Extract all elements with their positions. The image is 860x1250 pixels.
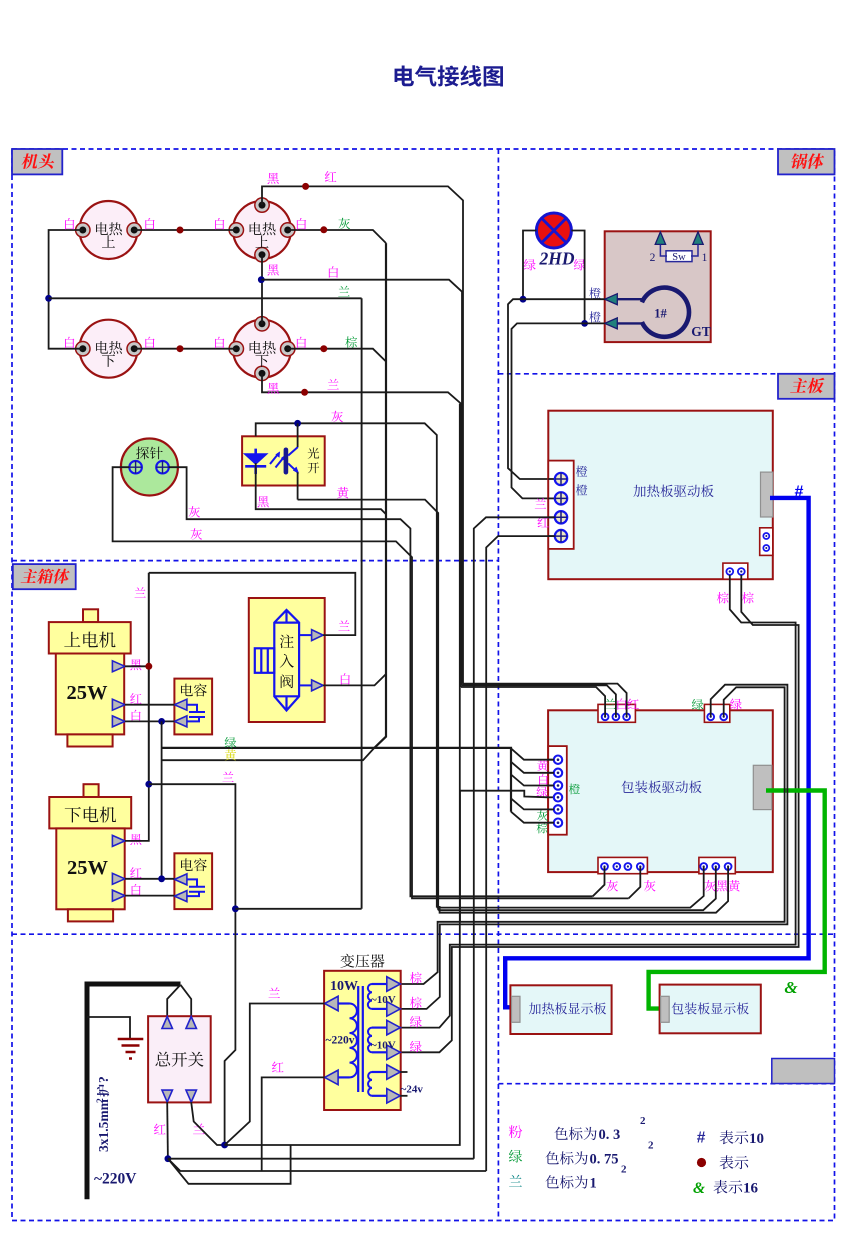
- wire probe right hui: [169, 467, 593, 896]
- packing left terminal pin 5: [548, 808, 558, 810]
- valve solenoid symbol: [255, 648, 274, 673]
- label lv bundle: [225, 737, 237, 748]
- label hei bottom: [716, 880, 727, 891]
- wire lan-1 vertical: [361, 298, 363, 909]
- transformer primary coil: [350, 1004, 357, 1078]
- packing driver board U-pack: [548, 710, 773, 872]
- node junction lan-908: [232, 905, 239, 912]
- label cable spec 3x1.5mm2-hu: [96, 1076, 111, 1152]
- label lan top: [604, 698, 615, 708]
- label bai heater3 left: [65, 337, 74, 348]
- node junction lamp left: [520, 296, 527, 303]
- probe tan-zhen body: [121, 439, 178, 496]
- wire heater left bus: [49, 230, 83, 349]
- heating driver terminal pin 2: [548, 497, 561, 499]
- valve capsule symbol: [274, 610, 299, 711]
- label hui probe left wire: [191, 528, 203, 539]
- wire hong into packing top: [461, 687, 605, 717]
- label zong sec1: [410, 972, 422, 984]
- svg-text:&: &: [693, 1180, 705, 1197]
- wire hui-b2 to probe bus: [629, 867, 641, 899]
- switch terminal bottom-right: [186, 1090, 197, 1102]
- valve label zhu-ru-fa: [280, 634, 294, 648]
- capacitor upper dian-rong: [174, 679, 212, 735]
- wire cheng-B GT to driver t2: [512, 323, 605, 498]
- label bai heater2 left: [215, 218, 224, 229]
- wire dot1 to right riser: [168, 1158, 474, 1160]
- svg-text:2: 2: [640, 1115, 646, 1127]
- wire huang cap branch: [162, 748, 375, 760]
- label huang left: [537, 760, 548, 771]
- legend lan color-code: [509, 1175, 522, 1187]
- node junction dot1: [165, 1155, 172, 1162]
- svg-text:0. 3: 0. 3: [599, 1127, 621, 1143]
- label hong heater2 top: [325, 171, 337, 182]
- motor lower xia-dian-ji 25W: [84, 784, 99, 797]
- svg-text:~24v: ~24v: [401, 1084, 424, 1096]
- label lan driver t3: [535, 498, 546, 508]
- connector Sw pin2 triangle: [655, 232, 665, 245]
- wire motor-upper bai to cap: [125, 720, 174, 722]
- title dian-qi-jie-xian-tu (electrical wiring diagram): [395, 65, 503, 86]
- wire probe left hui: [113, 467, 629, 898]
- wire lv-2 transformer to packing top: [401, 687, 785, 984]
- wire mains to switch L: [167, 985, 180, 1016]
- svg-text:#: #: [795, 484, 804, 501]
- node junction bai-cap upper: [158, 718, 165, 725]
- mains cable thick: [87, 984, 181, 1199]
- node junction lan-2 wire: [301, 389, 308, 396]
- wire heater row2 link: [134, 348, 237, 350]
- GT coil box: [605, 231, 711, 342]
- packing left terminal pin 1: [548, 759, 558, 761]
- packing top terminal block lv-lv: [704, 704, 729, 722]
- svg-text:0. 75: 0. 75: [590, 1152, 619, 1168]
- wire vertical bus x386 hui/zong: [374, 243, 386, 748]
- label hui probe right wire: [189, 506, 201, 517]
- motor upper terminal bai: [112, 716, 125, 727]
- wire hei from opto LED: [256, 463, 386, 514]
- label bai left: [539, 774, 548, 785]
- wire fan to pin hui: [511, 798, 554, 809]
- svg-text:?: ?: [96, 1076, 111, 1083]
- label bai valve: [341, 673, 350, 684]
- label cheng driver t1: [576, 466, 587, 477]
- label lv sec4: [410, 1041, 422, 1052]
- svg-text:~10V: ~10V: [371, 1040, 396, 1052]
- wire cheng 24v riser: [459, 791, 461, 922]
- heating driver terminal pin 3: [548, 516, 561, 518]
- label bai motor upper: [132, 710, 141, 721]
- wire huang-b run: [440, 867, 728, 913]
- svg-text:10W: 10W: [330, 979, 358, 994]
- wire bai-cap riser down: [161, 721, 163, 878]
- legend fen color-code: [509, 1125, 522, 1138]
- transformer secondary terminal t1: [387, 977, 401, 992]
- label bai heater2 right: [297, 218, 306, 229]
- wire dot1 diag2 low run: [168, 1145, 291, 1184]
- wire cheng-A GT to driver t1: [508, 299, 605, 479]
- switch terminal bottom-left: [162, 1090, 173, 1102]
- node junction hui wire: [320, 226, 327, 233]
- wire switch hong down: [166, 1102, 169, 1159]
- label hui bottom-1: [607, 880, 619, 891]
- label cheng left: [569, 784, 580, 795]
- label hei opto wire: [257, 496, 268, 507]
- packing left terminal pin 3: [548, 785, 558, 787]
- wire lan-1 bottom link: [235, 908, 361, 910]
- section label ji-tou (machine head): [12, 149, 62, 174]
- svg-text:25W: 25W: [67, 857, 109, 879]
- label bai mid wire: [329, 266, 338, 277]
- label bai top: [617, 698, 626, 709]
- transformer title bian-ya-qi: [340, 954, 384, 968]
- label bai heater1 left: [65, 218, 74, 229]
- GT heating coil 1#: [642, 288, 689, 337]
- section label zhu-xiang-ti (main box): [13, 564, 76, 589]
- heater element upper-2 dian-re-shang: [233, 201, 291, 259]
- svg-text:&: &: [784, 978, 798, 997]
- wire valve-lan riser: [148, 573, 150, 784]
- wire bundle main run: [162, 748, 511, 812]
- divider horizontal between pot-body and mainboard: [498, 373, 834, 375]
- motor upper shang-dian-ji 25W: [83, 609, 98, 622]
- wire fan to pin lv: [511, 775, 554, 786]
- node junction motor-upper hei: [145, 663, 152, 670]
- svg-text:2: 2: [650, 252, 656, 264]
- label lan bundle: [222, 771, 233, 781]
- label lan-1 wire: [338, 286, 349, 297]
- svg-text:GT: GT: [691, 324, 711, 339]
- wire opto transistor through: [297, 423, 299, 447]
- svg-text:1#: 1#: [654, 307, 667, 321]
- node junction lamp right: [581, 320, 588, 327]
- wire zong-2 run: [401, 575, 799, 1052]
- main switch zong-kai-guan box: [148, 1016, 211, 1102]
- label hui opto wire: [331, 411, 343, 422]
- motor lower terminal hei: [112, 835, 125, 846]
- svg-text:3x1.5mm: 3x1.5mm: [96, 1098, 111, 1152]
- label zong heater4 row: [345, 336, 357, 348]
- opto-switch guang-kai box: [242, 436, 325, 485]
- wire ground branch: [87, 1017, 130, 1039]
- probe terminal left pin: [129, 461, 142, 474]
- heating driver aux box: [760, 528, 773, 556]
- wire hui-b1 to probe bus: [593, 867, 605, 897]
- label cheng GT lower: [589, 311, 600, 322]
- label hong motor upper: [130, 693, 141, 704]
- wire lan branch right: [149, 784, 236, 1145]
- label hei heater2 bottom: [267, 264, 278, 275]
- opto light arrows: [270, 454, 284, 468]
- packing left terminal pin 6: [548, 822, 558, 824]
- connector Sw pin1 triangle: [693, 232, 703, 245]
- wire zong from heater4 right: [287, 349, 386, 362]
- svg-text:#: #: [697, 1130, 706, 1147]
- node junction motor-lower hei: [145, 781, 152, 788]
- label zong left: [537, 822, 548, 833]
- svg-text:16: 16: [743, 1181, 759, 1197]
- node junction on hong wire: [302, 183, 309, 190]
- svg-text:1: 1: [702, 252, 708, 264]
- packing display board bao-zhuang-ban-xian-shi-ban: [660, 985, 761, 1034]
- divider vertical between head/main-box and pot/mainboard sections: [497, 149, 499, 1221]
- divider horizontal between ji-tou and main-box: [12, 560, 498, 562]
- wire dot1 diag to hong-primary run: [168, 1159, 486, 1171]
- wire fan to pin zong: [511, 812, 554, 823]
- wire fan to pin bai: [511, 762, 554, 773]
- node junction bai tap: [258, 276, 265, 283]
- wire motor-upper hei to valve net: [125, 665, 149, 667]
- wire lan-2 from heater4 bottom: [262, 374, 461, 688]
- wire bai into packing top: [462, 685, 616, 717]
- wire motor-lower bai to cap: [125, 895, 174, 897]
- label hong driver t4: [538, 517, 549, 528]
- heating driver left terminal block: [548, 461, 573, 549]
- packing left terminal block: [548, 746, 567, 835]
- packing bottom terminal block hui-hui: [598, 857, 647, 873]
- wire heater2 bottom to heater4 top: [261, 255, 263, 324]
- transformer box: [324, 971, 401, 1110]
- wire lan driver t3 to bottom: [474, 517, 555, 1158]
- node junction row2: [177, 345, 184, 352]
- heating display board jia-re-ban-xian-shi-ban: [510, 985, 611, 1034]
- capacitor lower dian-rong: [174, 853, 212, 909]
- wire lan primary feed: [225, 1004, 325, 1146]
- motor upper terminal hong: [112, 699, 125, 710]
- label hei motor lower: [130, 834, 141, 845]
- label zong sec2: [410, 997, 422, 1009]
- wire dot2 to right riser: [225, 404, 460, 1145]
- wire lamp right lead: [571, 231, 584, 324]
- wire hui from heater2 right: [287, 230, 386, 243]
- transformer primary terminal top: [325, 996, 339, 1011]
- wire hui-b3 run: [437, 867, 704, 908]
- label bai heater4 right: [297, 337, 306, 348]
- label lv lamp right: [574, 259, 586, 270]
- label hui left: [537, 810, 548, 821]
- label zong driver bottom right: [742, 592, 754, 604]
- transformer secondary coil 2: [368, 1028, 372, 1053]
- label bai heater4 left: [215, 337, 224, 348]
- label huang bundle: [225, 749, 236, 760]
- wire huang from opto: [298, 500, 439, 911]
- packing left terminal pin 2: [548, 772, 558, 774]
- wire zong-1 run: [401, 575, 796, 1028]
- svg-text:~220v: ~220v: [326, 1035, 355, 1047]
- valve terminal lan: [299, 634, 312, 636]
- svg-text:2: 2: [96, 1098, 106, 1103]
- wire motor-lower hong to cap: [125, 878, 174, 880]
- svg-text:10: 10: [749, 1131, 764, 1147]
- label hei heater4 bottom: [267, 383, 278, 394]
- label bai motor lower: [132, 884, 141, 895]
- label hei motor upper: [130, 659, 141, 670]
- svg-text:Sw: Sw: [672, 252, 686, 263]
- svg-text:2: 2: [648, 1140, 654, 1152]
- svg-text:~220V: ~220V: [94, 1171, 137, 1188]
- label lv left: [537, 787, 548, 798]
- section label guo-ti (pot body): [778, 149, 835, 174]
- label hong top: [628, 699, 639, 710]
- wire lv-1 transformer to packing top: [401, 685, 788, 1009]
- wire hui from opto top to bus: [256, 423, 437, 907]
- divider horizontal above legend: [498, 1083, 834, 1085]
- motor lower terminal hong: [112, 873, 125, 884]
- valve terminal bai: [299, 684, 312, 686]
- wire hei/hong from heater2 top: [262, 186, 463, 683]
- label lv sec3: [410, 1016, 422, 1027]
- heater element upper-1 dian-re-shang: [80, 201, 138, 259]
- label hong transformer primary: [272, 1062, 284, 1073]
- label lan transformer primary: [269, 987, 280, 998]
- heating driver board U-heat: [548, 411, 773, 580]
- svg-text:2HD: 2HD: [539, 249, 575, 269]
- label hong switch: [154, 1124, 166, 1135]
- label huang bottom: [728, 880, 740, 891]
- divider horizontal above power section: [12, 933, 835, 935]
- heating driver terminal pin 4: [548, 535, 561, 537]
- wire lamp left lead: [523, 231, 536, 300]
- motor upper terminal hei: [112, 661, 125, 672]
- wire heater row1 link: [134, 229, 237, 231]
- transformer secondary coil 1: [368, 984, 372, 1009]
- transformer secondary coil 3: [368, 1072, 372, 1096]
- heater element lower-2 dian-re-xia: [233, 320, 291, 378]
- label hui bottom-3: [704, 880, 716, 891]
- node junction hong-cap lower: [158, 875, 165, 882]
- label lv top-right: [730, 699, 742, 710]
- grey spare box bottom-right: [772, 1059, 835, 1084]
- label zong driver bottom left: [717, 592, 729, 604]
- svg-text:2: 2: [621, 1164, 627, 1176]
- heating driver terminal pin 1: [548, 478, 561, 480]
- label cheng GT upper: [589, 288, 600, 299]
- switch terminal top-left: [162, 1017, 173, 1029]
- label lv lamp left: [524, 259, 536, 270]
- label hong motor lower: [130, 867, 141, 878]
- wire lan-1 from left bus to vertical bus: [49, 297, 362, 299]
- connector GT upper triangle: [605, 294, 618, 305]
- label lan near riser: [135, 587, 146, 597]
- node junction row1: [177, 227, 184, 234]
- label lan valve: [338, 620, 349, 630]
- heating driver bottom terminal block: [723, 563, 748, 579]
- heater element lower-1 dian-re-xia: [80, 320, 138, 378]
- motor lower terminal bai: [112, 890, 125, 901]
- opto LED symbol: [245, 449, 266, 474]
- transformer secondary terminal t5: [387, 1065, 401, 1080]
- label hui heater2 row: [339, 218, 351, 229]
- legend dot means join: [697, 1158, 706, 1167]
- injection valve box: [249, 598, 325, 722]
- wire # blue from heating driver: [505, 498, 808, 1007]
- heating display connector: [512, 996, 521, 1022]
- label lan switch: [193, 1124, 204, 1135]
- svg-text:25W: 25W: [67, 682, 109, 704]
- heating driver right connector: [761, 472, 773, 517]
- node junction dot2: [221, 1142, 228, 1149]
- label cheng driver t2: [576, 484, 587, 495]
- connector GT lower triangle: [605, 318, 618, 329]
- label hei heater2 top: [267, 173, 278, 184]
- node junction on left bus (lan tap): [45, 295, 52, 302]
- svg-text:1: 1: [590, 1176, 597, 1192]
- wire t5 stub: [400, 1071, 407, 1073]
- packing top terminal block lan-bai-hong: [598, 704, 635, 722]
- wire valve bai to bus386: [323, 674, 386, 685]
- node junction zong wire: [320, 345, 327, 352]
- lamp 2HD body: [536, 213, 571, 248]
- label lv top-left: [692, 699, 704, 710]
- packing display connector: [661, 996, 670, 1022]
- wire & green from packing driver: [649, 791, 825, 1009]
- wire t6 stub: [400, 1095, 407, 1097]
- wire switch lan down: [191, 1102, 224, 1145]
- section label zhu-ban (mainboard): [778, 374, 835, 399]
- svg-text:~10V: ~10V: [371, 994, 396, 1006]
- wire hong primary feed: [262, 1077, 325, 1171]
- transformer secondary terminal t6: [387, 1089, 401, 1104]
- wire bai from heater column to vertical bus: [261, 280, 462, 686]
- packing left terminal pin 4: [548, 796, 558, 798]
- label bai heater3 right: [145, 337, 154, 348]
- legend lv color-code: [509, 1150, 522, 1163]
- wire hei-b run: [438, 867, 716, 911]
- wire fan to pin huang: [511, 748, 554, 759]
- transformer secondary terminal t4: [387, 1045, 401, 1060]
- label bai heater1 right: [145, 218, 154, 229]
- packing bottom terminal block hui-hei-huang: [699, 857, 735, 873]
- label lan-2 wire: [327, 379, 338, 390]
- transformer primary terminal bottom: [325, 1070, 339, 1085]
- wire lan into packing top: [463, 684, 627, 717]
- opto phototransistor: [284, 448, 289, 475]
- node junction opto top: [294, 420, 301, 427]
- ground symbol: [118, 1039, 144, 1059]
- packing right connector: [753, 765, 772, 809]
- probe terminal right pin: [156, 461, 169, 474]
- wire motor-lower hei up: [125, 784, 149, 841]
- label huang opto wire: [337, 487, 349, 498]
- wire mains to switch N: [181, 985, 192, 1016]
- wire valve lan to motor-hei riser: [149, 573, 355, 635]
- wire motor-upper hong to cap: [125, 704, 174, 706]
- wire hong driver t4 to bottom: [486, 536, 555, 1171]
- label hui bottom-2: [644, 880, 656, 891]
- transformer secondary terminal t3: [387, 1020, 401, 1035]
- transformer core: [358, 986, 363, 1092]
- transformer secondary terminal t2: [387, 1002, 401, 1017]
- switch terminal top-right: [186, 1017, 197, 1029]
- switch Sw box: [666, 251, 692, 262]
